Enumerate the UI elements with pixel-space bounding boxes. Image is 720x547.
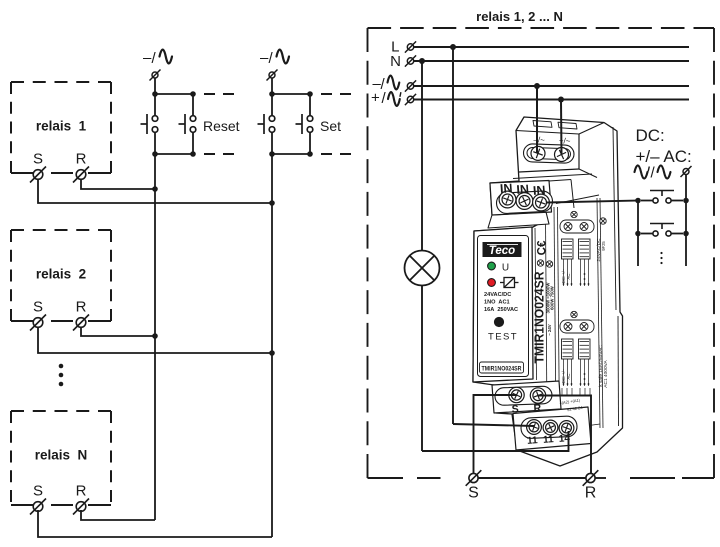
- svg-text:Set: Set: [320, 118, 341, 134]
- svg-text:R: R: [585, 485, 597, 502]
- svg-text:TMIR1NO024SR: TMIR1NO024SR: [482, 366, 522, 373]
- svg-text:R: R: [76, 483, 87, 500]
- svg-text:S: S: [33, 483, 43, 500]
- svg-text:C€: C€: [537, 240, 549, 255]
- svg-text:R: R: [76, 299, 87, 316]
- svg-text:S: S: [33, 299, 43, 316]
- svg-text:11: 11: [527, 435, 539, 447]
- svg-text:+: +: [371, 90, 380, 107]
- svg-text:U: U: [502, 263, 509, 274]
- svg-text:11: 11: [543, 434, 555, 446]
- svg-text:Teco: Teco: [489, 245, 515, 257]
- svg-text:/: /: [269, 50, 274, 67]
- svg-text:relais N: relais N: [35, 448, 88, 463]
- svg-text:AC:: AC:: [566, 273, 571, 280]
- svg-text:IN: IN: [499, 181, 512, 196]
- svg-text:IN: IN: [516, 182, 529, 197]
- svg-text:/: /: [382, 90, 387, 107]
- svg-text:N: N: [390, 53, 401, 70]
- svg-text:S: S: [468, 485, 479, 502]
- svg-text:R: R: [76, 151, 87, 168]
- svg-text:16A 250VAC: 16A 250VAC: [484, 307, 518, 313]
- svg-text:TMIR1NO024SR: TMIR1NO024SR: [533, 272, 547, 364]
- svg-text:relais 1: relais 1: [36, 119, 87, 134]
- svg-text:–/~: –/~: [533, 135, 545, 145]
- svg-text:AC:: AC:: [566, 373, 571, 380]
- svg-text:1NO AC1: 1NO AC1: [484, 300, 510, 306]
- svg-text:600W 750W: 600W 750W: [550, 285, 555, 310]
- svg-text:/: /: [651, 165, 656, 182]
- svg-text:AC1 4000VA: AC1 4000VA: [603, 360, 609, 388]
- svg-text:24VAC/DC: 24VAC/DC: [484, 292, 511, 298]
- svg-text:DC:: DC:: [636, 126, 665, 145]
- svg-text:Reset: Reset: [203, 118, 240, 134]
- svg-text:relais 2: relais 2: [36, 267, 86, 282]
- svg-text:/: /: [152, 50, 157, 67]
- svg-text:relais 1, 2 ... N: relais 1, 2 ... N: [476, 9, 563, 24]
- svg-text:TEST: TEST: [488, 332, 518, 343]
- svg-text:IN: IN: [532, 183, 545, 198]
- svg-text:9F25: 9F25: [601, 241, 606, 251]
- svg-text:+/– AC:: +/– AC:: [636, 147, 692, 166]
- svg-text:– 24V: – 24V: [547, 324, 552, 335]
- svg-text:S: S: [33, 151, 43, 168]
